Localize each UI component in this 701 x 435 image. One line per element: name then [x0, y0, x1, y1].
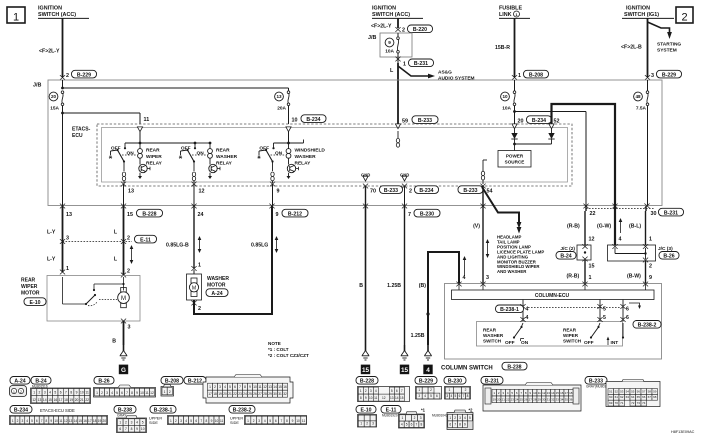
label STARTING SYSTEM: [657, 42, 681, 54]
svg-text:WIPER: WIPER: [21, 284, 38, 290]
svg-text:24: 24: [198, 212, 204, 218]
svg-text:IGNITION: IGNITION: [38, 6, 62, 12]
wire label L-Y upper: [47, 230, 56, 236]
label pin 4 J/C3: [619, 237, 622, 243]
svg-text:(B-W): (B-W): [627, 274, 641, 280]
svg-text:4: 4: [463, 275, 466, 281]
svg-text:4: 4: [526, 315, 529, 321]
svg-text:23: 23: [238, 392, 242, 396]
power source box: [498, 151, 531, 168]
svg-text:<F>2L-Y: <F>2L-Y: [371, 23, 392, 29]
svg-text:11: 11: [302, 419, 306, 423]
svg-text:9: 9: [292, 419, 294, 423]
labels pins 5 5: [603, 307, 606, 322]
svg-text:15: 15: [48, 398, 52, 402]
connector table B-208: [161, 377, 183, 397]
svg-text:60: 60: [609, 395, 613, 399]
fuse 13 20A: [275, 91, 290, 112]
column ECU strip: [452, 284, 655, 300]
svg-text:36: 36: [569, 398, 573, 402]
svg-text:6: 6: [119, 427, 121, 431]
svg-text:B-234: B-234: [532, 118, 546, 124]
connector table A-24: [10, 377, 31, 397]
thick wire (B) column ECU pin4 to ground: [411, 252, 459, 345]
svg-text:COLUMN-ECU: COLUMN-ECU: [535, 293, 570, 299]
svg-text:3: 3: [459, 416, 461, 420]
labels pins 6 6: [626, 307, 629, 322]
internal stub pin 54: [481, 160, 487, 184]
svg-text:15: 15: [589, 264, 595, 270]
svg-text:17: 17: [88, 419, 92, 423]
svg-text:1: 1: [589, 275, 592, 281]
reference arrow washer return: [275, 236, 279, 253]
connector table B-230: [444, 377, 471, 400]
svg-text:10: 10: [533, 391, 537, 395]
wire ECU to B-238-1 pin4: [520, 300, 525, 322]
svg-text:1: 1: [649, 237, 652, 243]
label pin 10 B-234: [292, 115, 327, 124]
J/B bottom pin 24: [191, 204, 203, 218]
svg-text:OFF: OFF: [111, 145, 121, 151]
svg-text:<F>2L-B: <F>2L-B: [621, 45, 642, 51]
svg-text:7: 7: [401, 389, 403, 393]
svg-text:10A: 10A: [502, 106, 511, 112]
svg-text:3: 3: [446, 394, 448, 398]
svg-text:REAR: REAR: [21, 278, 36, 284]
svg-text:L-Y: L-Y: [47, 230, 56, 236]
svg-text:OFF: OFF: [584, 340, 594, 346]
wire relay1 output to J/B pin 15: [123, 184, 125, 206]
ETACS top pin 59 marker: [395, 124, 400, 129]
wire label L middle: [390, 68, 394, 74]
svg-text:(R-B): (R-B): [567, 224, 580, 230]
svg-text:REAR: REAR: [563, 328, 577, 333]
svg-text:9: 9: [76, 391, 78, 395]
relay container box: [102, 128, 568, 183]
svg-text:B-212: B-212: [188, 379, 202, 385]
svg-text:B-238: B-238: [507, 364, 521, 370]
fusible link 1 terminal label: [499, 6, 530, 19]
svg-text:2: 2: [430, 388, 432, 392]
svg-text:29: 29: [268, 392, 272, 396]
svg-text:B-231: B-231: [664, 210, 678, 216]
label pin 52: [554, 119, 560, 125]
svg-text:1: 1: [119, 420, 121, 424]
svg-text:B-26: B-26: [98, 379, 109, 385]
svg-text:54: 54: [487, 189, 493, 195]
svg-text:SOURCE: SOURCE: [505, 160, 525, 165]
svg-text:12: 12: [64, 419, 68, 423]
svg-text:6: 6: [234, 385, 236, 389]
svg-text:2: 2: [20, 390, 22, 394]
svg-text:61: 61: [615, 395, 619, 399]
relay feed rail 3: [274, 140, 304, 144]
svg-text:9: 9: [365, 396, 367, 400]
svg-text:13: 13: [38, 398, 42, 402]
svg-text:MU801043: MU801043: [432, 413, 448, 417]
svg-text:B-208: B-208: [529, 72, 543, 78]
label pin 1 column ECU: [589, 275, 592, 281]
label pin 15: [589, 264, 595, 270]
svg-text:9: 9: [249, 385, 251, 389]
svg-text:B-229: B-229: [419, 379, 433, 385]
rear wiper motor internal wiring: [63, 277, 125, 306]
J/B bottom pin 13: [60, 204, 72, 218]
connector table B-228: [356, 377, 410, 402]
label ETACS-ECU: [72, 127, 91, 140]
svg-text:10: 10: [141, 427, 145, 431]
J/B fuse box (audio) outline: [380, 33, 412, 57]
pin 1 connector B-208 label: [512, 70, 549, 80]
wire ECU to B-238-1 pin6: [620, 300, 625, 322]
svg-text:14: 14: [273, 385, 277, 389]
wire label 0.85LG-B: [166, 243, 189, 249]
svg-text:B-26: B-26: [663, 254, 674, 260]
J/B internal bus from B-229 pin to fuses: [61, 80, 288, 91]
pin 1 connector B-231 label: [395, 57, 433, 68]
wire label (R-B) lower: [567, 274, 580, 280]
label pin 2 J/C3 out: [649, 264, 652, 270]
svg-text:3: 3: [219, 385, 221, 389]
svg-text:33: 33: [556, 398, 560, 402]
wire B-W J/C3 to column ECU pin9: [645, 261, 647, 283]
svg-text:REAR: REAR: [483, 328, 497, 333]
svg-text:B-238-1: B-238-1: [154, 408, 173, 414]
label pin 1 J/C3: [649, 237, 652, 243]
wire GND70 to J/B bottom: [365, 186, 367, 206]
svg-text:8: 8: [46, 419, 48, 423]
svg-text:6: 6: [121, 391, 123, 395]
relay feed rail 1: [125, 142, 195, 144]
svg-text:30: 30: [542, 398, 546, 402]
svg-text:55: 55: [631, 389, 635, 393]
svg-text:B-230: B-230: [448, 379, 462, 385]
label GND pin 70: [361, 173, 370, 182]
connector table B-233: [585, 377, 660, 407]
svg-text:2: 2: [127, 236, 130, 242]
svg-text:1.25B: 1.25B: [387, 283, 401, 289]
rear washer relay: [179, 142, 238, 183]
svg-text:11: 11: [538, 391, 541, 395]
ETACS bottom pin 12 marker: [191, 182, 204, 195]
svg-text:11: 11: [374, 396, 378, 400]
svg-text:3: 3: [651, 73, 654, 79]
svg-text:28: 28: [263, 392, 267, 396]
svg-text:14: 14: [551, 391, 555, 395]
svg-text:*1 : COLT: *1 : COLT: [268, 347, 289, 352]
svg-text:7: 7: [239, 385, 241, 389]
svg-text:9: 9: [388, 40, 391, 45]
svg-text:1: 1: [198, 263, 201, 269]
svg-text:14: 14: [43, 398, 47, 402]
svg-text:5: 5: [229, 385, 231, 389]
rear wiper relay: [109, 142, 163, 183]
label WASHER MOTOR A-24: [206, 276, 229, 297]
windshield washer relay: [257, 142, 325, 183]
svg-text:24: 24: [243, 392, 247, 396]
svg-text:10A: 10A: [385, 49, 394, 55]
svg-text:12: 12: [263, 385, 267, 389]
label pin 9 column ECU: [649, 275, 652, 281]
label J/B middle: [368, 35, 376, 41]
svg-text:8: 8: [360, 396, 362, 400]
svg-text:ETACS-ECU SIDE: ETACS-ECU SIDE: [40, 408, 75, 413]
svg-text:ON: ON: [127, 151, 135, 157]
thick branch from pin 54 to other systems: [482, 187, 521, 234]
svg-text:AS&G: AS&G: [438, 70, 452, 76]
svg-text:17: 17: [565, 391, 569, 395]
thick power wire from pin 52 to J/C(3): [552, 104, 616, 245]
fuse 10 10A: [501, 80, 516, 112]
svg-text:WIPER: WIPER: [146, 154, 162, 160]
ground ref box G: [119, 365, 128, 374]
fuse 48 7.5A: [634, 80, 649, 112]
E-11 pin 3 marker: [60, 236, 69, 244]
svg-text:48: 48: [635, 94, 641, 99]
svg-text:L-Y: L-Y: [47, 257, 56, 263]
reference arrow on V wire: [486, 239, 490, 258]
svg-text:22: 22: [506, 398, 510, 402]
svg-text:B-233: B-233: [463, 188, 477, 194]
svg-text:22: 22: [590, 211, 596, 217]
wire ignition ACC feed middle: [397, 18, 399, 28]
svg-text:B-233: B-233: [384, 188, 398, 194]
motor pin 2 top marker: [121, 269, 130, 278]
svg-text:70: 70: [615, 401, 619, 405]
svg-text:53: 53: [620, 389, 624, 393]
svg-text:2: 2: [365, 389, 367, 393]
svg-text:31: 31: [547, 398, 551, 402]
reference arrow on L wire: [130, 245, 134, 264]
svg-text:ON: ON: [197, 151, 205, 157]
svg-text:8: 8: [467, 394, 469, 398]
svg-text:1: 1: [13, 12, 19, 24]
svg-text:11: 11: [220, 419, 224, 423]
svg-text:22: 22: [233, 392, 237, 396]
svg-text:GRAY: GRAY: [117, 413, 127, 417]
svg-text:26: 26: [524, 398, 528, 402]
svg-text:15: 15: [400, 396, 404, 400]
svg-text:B-238-2: B-238-2: [233, 408, 252, 414]
wire B from ETACS GND70 to ground: [359, 206, 365, 345]
svg-text:2: 2: [198, 306, 201, 312]
svg-text:11: 11: [258, 385, 262, 389]
svg-text:B-229: B-229: [77, 72, 91, 78]
diagram sheet grid ref box 1: [7, 7, 25, 24]
svg-text:SIDE: SIDE: [149, 421, 158, 425]
svg-text:1.25B: 1.25B: [411, 333, 425, 339]
svg-text:9: 9: [136, 391, 138, 395]
svg-text:4: 4: [464, 416, 466, 420]
svg-text:3: 3: [258, 419, 260, 423]
svg-text:11: 11: [59, 419, 63, 423]
joint connector J/C(3) box: [608, 244, 656, 262]
svg-text:73: 73: [637, 401, 641, 405]
wire label L-Y lower: [47, 257, 56, 263]
ETACS bottom GND pin 2 B-234: [402, 184, 439, 195]
svg-text:6: 6: [195, 419, 197, 423]
svg-text:8: 8: [459, 423, 461, 427]
svg-text:5: 5: [142, 420, 144, 424]
svg-text:3: 3: [370, 389, 372, 393]
svg-text:9: 9: [464, 423, 466, 427]
svg-text:15: 15: [127, 212, 133, 218]
svg-text:5: 5: [391, 389, 393, 393]
svg-text:20: 20: [497, 398, 501, 402]
label pin 11 ETACS: [144, 117, 150, 123]
svg-text:4: 4: [224, 385, 226, 389]
svg-text:32: 32: [283, 392, 287, 396]
svg-text:2: 2: [465, 388, 467, 392]
svg-text:10: 10: [140, 391, 144, 395]
svg-text:SWITCH: SWITCH: [483, 339, 502, 344]
E-11 pin 1 marker: [60, 266, 69, 274]
svg-text:4: 4: [424, 394, 426, 398]
svg-text:2: 2: [414, 416, 416, 420]
svg-text:62: 62: [620, 395, 624, 399]
svg-text:9: 9: [276, 212, 279, 218]
svg-text:1: 1: [360, 422, 362, 426]
reference arrow on (B) wire: [463, 256, 467, 276]
wire ignition ACC feed to J/B: [62, 18, 64, 77]
wire L-Y J/B pin13 to E-11 pin3: [62, 206, 64, 272]
svg-text:16: 16: [83, 419, 87, 423]
ETACS top pin 20 marker: [512, 124, 517, 129]
svg-text:(B-L): (B-L): [629, 224, 641, 230]
svg-text:15B-R: 15B-R: [495, 45, 510, 51]
svg-text:13: 13: [390, 396, 394, 400]
svg-text:B-231: B-231: [485, 379, 499, 385]
rear wiper motor symbol M: [118, 288, 130, 308]
svg-text:66: 66: [642, 395, 646, 399]
label B-238-2: [633, 321, 661, 329]
connector table E-10: [356, 406, 377, 428]
svg-text:8: 8: [70, 391, 72, 395]
ground symbol 4: [424, 345, 432, 360]
svg-text:63: 63: [626, 395, 630, 399]
junction block J/B outline: [48, 80, 662, 206]
svg-text:WASHER: WASHER: [207, 276, 229, 282]
svg-text:4: 4: [375, 389, 377, 393]
svg-text:9: 9: [649, 275, 652, 281]
svg-text:MOTOR: MOTOR: [207, 283, 226, 289]
svg-text:B-234: B-234: [306, 117, 320, 123]
svg-text:8: 8: [131, 427, 133, 431]
svg-text:WIPER: WIPER: [563, 333, 579, 338]
svg-text:1: 1: [12, 419, 14, 423]
svg-text:SWITCH (ACC): SWITCH (ACC): [372, 12, 410, 18]
svg-text:REAR: REAR: [146, 148, 160, 154]
wire V from pin54 to column ECU pin3: [482, 186, 484, 283]
svg-text:10: 10: [80, 391, 84, 395]
svg-text:E-10: E-10: [361, 408, 372, 414]
svg-text:71: 71: [620, 401, 624, 405]
ground ref box 4: [424, 365, 433, 374]
svg-text:RELAY: RELAY: [216, 160, 233, 166]
wire label (B-L): [629, 224, 641, 230]
svg-text:B-229: B-229: [662, 72, 676, 78]
svg-text:21: 21: [502, 398, 506, 402]
svg-text:13: 13: [128, 189, 134, 195]
svg-text:<F>2L-Y: <F>2L-Y: [39, 49, 60, 55]
svg-text:1: 1: [418, 388, 420, 392]
svg-text:16: 16: [560, 391, 564, 395]
svg-text:3: 3: [106, 391, 108, 395]
svg-text:LINK: LINK: [499, 12, 512, 18]
label pin 3 column ECU: [486, 275, 489, 281]
svg-text:RELAY: RELAY: [295, 160, 312, 166]
svg-text:WASHER: WASHER: [483, 333, 504, 338]
hook stub near pin6: [629, 303, 641, 309]
svg-text:6: 6: [459, 394, 461, 398]
J/B bottom pin 22: [583, 204, 595, 217]
svg-text:6: 6: [626, 307, 629, 313]
svg-text:NOTE: NOTE: [268, 341, 281, 346]
svg-text:WASHER: WASHER: [295, 154, 317, 160]
svg-text:21: 21: [80, 398, 84, 402]
svg-text:2: 2: [169, 390, 171, 394]
svg-text:27: 27: [258, 392, 262, 396]
svg-text:8: 8: [244, 385, 246, 389]
svg-text:1: 1: [360, 389, 362, 393]
svg-text:5: 5: [190, 419, 192, 423]
diode pair to power source: [511, 129, 554, 151]
connector table B-212: [184, 375, 293, 404]
dashed connector line B-238-1: [528, 307, 620, 309]
ground ref box 15 left: [361, 365, 370, 374]
svg-text:B-234: B-234: [419, 188, 433, 194]
dashed connector line B-231 pins: [586, 208, 655, 210]
svg-text:11: 11: [145, 391, 149, 395]
svg-text:57: 57: [642, 389, 646, 393]
svg-text:B: B: [359, 283, 363, 289]
svg-text:13: 13: [547, 391, 551, 395]
svg-text:65: 65: [637, 395, 641, 399]
svg-text:*2: *2: [469, 408, 474, 413]
internal stub pin 59: [396, 131, 399, 147]
wire label <F>2L-B: [621, 45, 642, 51]
wire ECU to B-238-1 pin5: [597, 300, 602, 322]
svg-text:69: 69: [609, 401, 613, 405]
svg-text:13: 13: [276, 94, 282, 99]
reference arrow washer feed: [198, 236, 202, 253]
svg-text:7: 7: [41, 419, 43, 423]
svg-text:B-234: B-234: [14, 408, 28, 414]
wire label (V): [473, 224, 480, 230]
svg-text:COLUMN SWITCH: COLUMN SWITCH: [441, 366, 493, 372]
svg-text:4: 4: [136, 420, 138, 424]
svg-text:2: 2: [66, 73, 69, 79]
washer motor box: [187, 270, 202, 300]
svg-text:J/B: J/B: [368, 35, 376, 41]
svg-text:1: 1: [403, 62, 406, 68]
connector table B-26: [94, 377, 156, 398]
svg-text:5: 5: [269, 419, 271, 423]
svg-text:15: 15: [401, 367, 409, 374]
svg-text:IGNITION: IGNITION: [626, 6, 650, 12]
svg-text:SIDE: SIDE: [230, 421, 239, 425]
svg-text:A-24: A-24: [14, 379, 25, 385]
ground ref box 15 right: [400, 365, 409, 374]
svg-text:9: 9: [50, 419, 52, 423]
wire fuse10 output split: [513, 106, 586, 206]
svg-text:6: 6: [396, 389, 398, 393]
svg-text:2: 2: [17, 419, 19, 423]
svg-text:2: 2: [409, 189, 412, 195]
svg-text:2: 2: [366, 422, 368, 426]
ground symbol 15 left: [362, 345, 370, 360]
svg-text:OFF: OFF: [259, 145, 269, 151]
